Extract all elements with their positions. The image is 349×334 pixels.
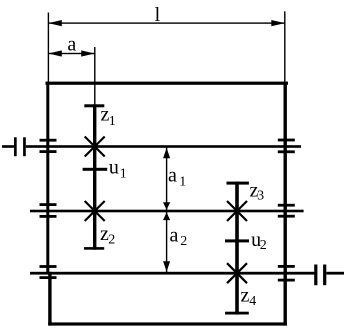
dimension a1 arrow down — [163, 202, 170, 210]
svg-text:a: a — [168, 164, 177, 186]
extension line left — [48, 13, 49, 82]
dimension a1 a2 vertical line — [166, 148, 167, 273]
gear z4 hub cross X — [227, 263, 247, 283]
dimension l arrow right — [271, 20, 285, 26]
svg-text:4: 4 — [249, 294, 256, 309]
bearing L3 upper cap — [40, 265, 57, 268]
gear z2 hub cross X — [85, 201, 105, 221]
bearing L1 upper cap — [40, 139, 57, 142]
gear column 1 shaft line — [93, 104, 96, 249]
bearing R2 upper cap — [278, 204, 295, 207]
svg-text:1: 1 — [120, 166, 127, 181]
gear column 2 shaft line — [235, 182, 239, 315]
svg-text:2: 2 — [108, 233, 115, 248]
gear z1 hub cross X — [85, 137, 105, 157]
bearing R1 upper cap — [278, 139, 295, 142]
coupling M2 bar 1 — [314, 265, 317, 286]
shaft I stub left — [2, 145, 14, 148]
bearing L1 lower cap — [40, 150, 57, 153]
bearing L3 lower cap — [40, 276, 57, 279]
dimension a arrow left — [48, 50, 62, 56]
dimension a arrow right — [81, 50, 95, 56]
dimension a2 arrow down — [163, 261, 170, 272]
bearing R3 upper cap — [278, 265, 295, 268]
frame right vertical — [284, 82, 287, 326]
shaft III stub right — [326, 272, 344, 275]
svg-text:z: z — [241, 285, 250, 307]
bearing R1 lower cap — [278, 150, 295, 153]
coupling M1 bar 1 — [14, 137, 17, 156]
shaft II — [30, 210, 304, 213]
gear mesh tick u1 — [83, 168, 108, 171]
gear z1 top cap — [84, 104, 104, 107]
bearing L2 lower cap — [40, 215, 57, 218]
svg-text:3: 3 — [257, 189, 264, 204]
svg-text:l: l — [155, 4, 161, 26]
dimension a2 arrow up — [163, 212, 170, 220]
coupling M1 bar 2 — [23, 137, 26, 156]
svg-text:1: 1 — [179, 175, 186, 190]
frame top line — [46, 82, 289, 85]
dimension l arrow left — [48, 20, 62, 26]
dimension a1 arrow up — [163, 148, 170, 159]
gear z3 top cap — [227, 182, 249, 185]
svg-text:a: a — [67, 34, 76, 56]
frame left vertical — [46, 82, 49, 274]
shaft I main — [26, 145, 301, 148]
gear z2 bottom cap — [84, 247, 104, 250]
bearing R3 lower cap — [278, 279, 295, 282]
dimension l line — [48, 22, 284, 23]
svg-text:u: u — [109, 157, 119, 179]
shaft III — [30, 272, 315, 275]
gear mesh tick u2 — [225, 239, 249, 242]
bearing L2 upper cap — [40, 203, 57, 206]
bearing R2 lower cap — [278, 215, 295, 218]
extension line right — [284, 11, 285, 81]
svg-text:2: 2 — [180, 234, 187, 249]
extension line middle — [94, 47, 95, 104]
gear z3 hub cross X — [227, 201, 247, 221]
gear z4 bottom cap — [225, 312, 249, 315]
svg-text:2: 2 — [260, 238, 267, 253]
frame bottom line — [48, 322, 287, 325]
svg-text:1: 1 — [109, 114, 116, 129]
svg-text:a: a — [170, 225, 179, 247]
dimension a line — [48, 53, 94, 54]
coupling M2 bar 2 — [323, 265, 326, 286]
